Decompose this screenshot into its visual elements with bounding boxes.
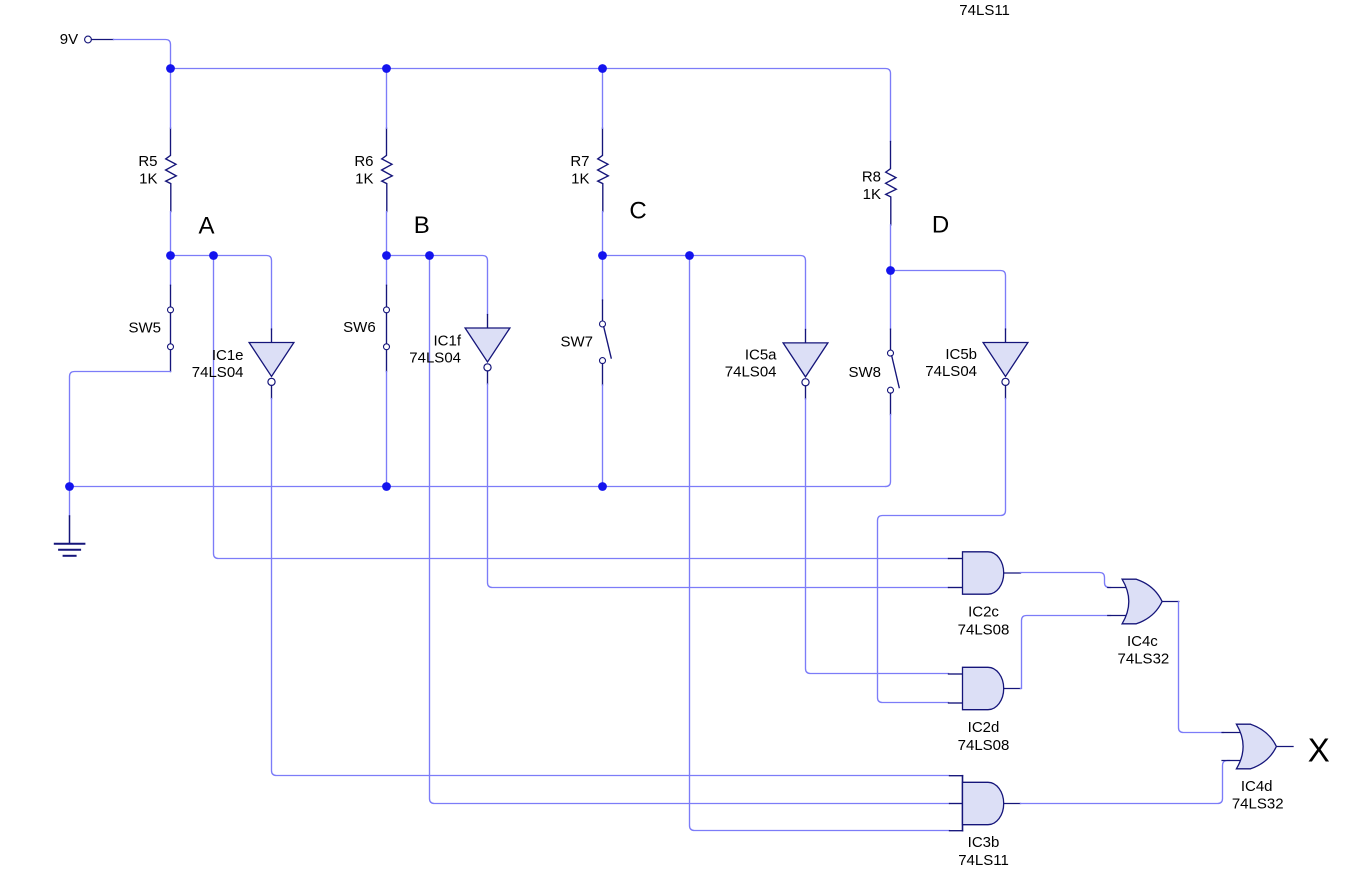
switch SW6 (closed) [343,256,389,372]
and-gate IC2c (74LS08) [949,552,1021,639]
svg-text:74LS08: 74LS08 [958,737,1010,754]
wire R7 bottom [602,212,604,256]
wire signal A to IC2c upper input [214,256,949,559]
wire node A to IC1e input [171,256,272,330]
wire ground rail [70,486,886,488]
svg-text:SW5: SW5 [128,320,161,337]
svg-text:IC4d: IC4d [1241,778,1273,795]
junction node A branch [209,251,218,260]
ground [55,516,85,556]
svg-text:R6: R6 [354,153,373,170]
svg-text:IC1f: IC1f [433,333,461,350]
wire IC5a output to IC2d upper input [806,399,949,674]
junction top bus at R6 [382,64,391,73]
svg-text:74LS32: 74LS32 [1232,795,1284,812]
switch SW5 (closed) [128,256,173,372]
junction ground rail SW7 [598,482,607,491]
svg-text:D: D [932,211,949,238]
junction node C branch [685,251,694,260]
junction top bus at R7 [598,64,607,73]
svg-text:IC5a: IC5a [745,347,777,364]
wire 9V terminal to top bus [114,40,171,69]
svg-text:SW7: SW7 [560,333,593,350]
switch SW8 (open) [848,271,899,415]
or-gate IC4c (74LS32) [1108,579,1179,667]
svg-text:IC2c: IC2c [968,604,999,621]
svg-text:74LS04: 74LS04 [725,364,777,381]
wire IC2c output to IC4c upper input [1021,573,1111,588]
wire signal B to IC3b middle input [430,256,950,804]
svg-text:R7: R7 [570,153,589,170]
wire IC1f output to IC2c lower input [488,384,949,588]
junction node B branch [425,251,434,260]
junction ground rail SW6 [382,482,391,491]
svg-text:1K: 1K [139,170,157,187]
wire SW7 bottom to ground rail [602,385,604,487]
junction node A [166,251,175,260]
wire R6 bottom [386,212,388,256]
svg-text:R8: R8 [862,169,881,186]
svg-text:IC1e: IC1e [212,347,244,364]
wire signal C to IC3b lower input [690,256,950,831]
wire IC2d output to IC4c lower input [1021,616,1111,689]
svg-text:74LS04: 74LS04 [192,364,244,381]
and-gate IC3b (74LS11) [950,776,1021,869]
wire SW6 bottom to ground rail [386,372,388,487]
junction top bus at R5 [166,64,175,73]
wire R6 top [386,69,388,129]
junction node B [382,251,391,260]
wire R5 bottom [170,212,172,256]
wire SW5 bottom to ground rail [70,372,171,487]
svg-text:74LS32: 74LS32 [1118,650,1170,667]
wire SW8 bottom to ground rail [886,415,891,487]
resistor R8 [862,142,896,225]
svg-text:B: B [414,212,430,239]
inverter IC5b (74LS04) [925,329,1028,398]
svg-text:IC3b: IC3b [968,834,1000,851]
resistor R5 [138,128,176,211]
inverter IC5a (74LS04) [725,330,828,399]
svg-text:1K: 1K [863,186,881,203]
resistor R7 [570,128,608,211]
svg-text:1K: 1K [355,170,373,187]
wire node B to IC1f input [387,256,488,315]
inverter IC1e (74LS04) [192,329,294,398]
junction ground rail left [65,482,74,491]
svg-text:74LS08: 74LS08 [958,621,1010,638]
inverter IC1f (74LS04) [409,315,510,384]
junction node D [886,266,895,275]
svg-text:9V: 9V [60,31,78,48]
wire IC4c output to IC4d upper input [1179,602,1224,733]
or-gate IC4d (74LS32) [1222,724,1293,812]
switch SW7 (open) [560,256,611,386]
wire IC5b output to IC2d lower input [878,399,1006,703]
wire node D to IC5b input [891,271,1006,330]
wire IC3b output to IC4d lower input [1021,761,1230,804]
wire IC1e output to IC3b upper input [272,399,950,776]
svg-text:SW8: SW8 [848,364,881,381]
svg-text:IC4c: IC4c [1127,633,1158,650]
wire node C to IC5a input [603,256,806,330]
svg-text:IC5b: IC5b [945,346,977,363]
svg-text:74LS11: 74LS11 [959,2,1010,19]
svg-text:R5: R5 [138,153,157,170]
svg-text:74LS04: 74LS04 [925,363,977,380]
junction node C [598,251,607,260]
svg-text:A: A [198,213,214,240]
wire R5 top [170,69,172,129]
svg-text:74LS04: 74LS04 [409,350,461,367]
svg-text:C: C [629,197,646,224]
wire R8 bottom [890,225,892,271]
9V terminal [60,31,114,48]
svg-text:IC2d: IC2d [968,719,1000,736]
wire top bus [171,69,891,142]
resistor R6 [354,128,392,211]
wire ground stub [69,487,71,517]
wire R7 top [602,69,604,129]
svg-text:X: X [1308,731,1330,768]
svg-text:1K: 1K [571,170,589,187]
svg-text:74LS11: 74LS11 [958,852,1009,869]
and-gate IC2d (74LS08) [949,667,1021,754]
svg-text:SW6: SW6 [343,319,376,336]
